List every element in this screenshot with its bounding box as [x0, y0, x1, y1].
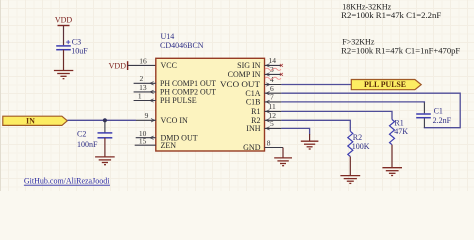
pin 9 stub: [136, 119, 156, 122]
svg-text:6: 6: [270, 84, 274, 93]
github link: [24, 177, 110, 186]
svg-text:PH PULSE: PH PULSE: [160, 96, 197, 105]
svg-text:VCO IN: VCO IN: [161, 116, 189, 125]
pin numbers left: [138, 57, 149, 146]
pin 6 stub: [265, 92, 282, 95]
pin 10 stub: [136, 136, 156, 139]
resistor R2: [348, 131, 370, 156]
svg-text:R2: R2: [353, 133, 362, 142]
wire pin5 INH to ground: [281, 128, 309, 134]
pin 5 stub: [265, 127, 282, 130]
port PLL PULSE: [351, 80, 421, 90]
svg-text:2.2nF: 2.2nF: [433, 116, 452, 125]
svg-text:VDD: VDD: [109, 62, 127, 71]
svg-text:C1: C1: [434, 107, 443, 116]
ground (INH pin 5): [301, 141, 319, 149]
pin 8 stub GND: [265, 147, 284, 149]
svg-text:ZEN: ZEN: [161, 141, 177, 150]
pin 12 stub: [265, 119, 282, 122]
junction node (IN / C2): [103, 118, 107, 122]
svg-text:CD4046BCN: CD4046BCN: [160, 41, 204, 50]
capacitor C3: [56, 37, 88, 55]
IC U14 CD4046BCN: [156, 32, 265, 151]
svg-text:VCO OUT: VCO OUT: [220, 80, 260, 89]
port IN: [3, 116, 68, 125]
wire R1 to ground: [391, 145, 393, 168]
svg-text:C1B: C1B: [246, 98, 261, 107]
pin 1 stub: [134, 99, 156, 102]
svg-text:100nF: 100nF: [77, 140, 98, 149]
pin 3 stub (no connect): [265, 73, 283, 76]
svg-text:1: 1: [138, 91, 142, 100]
pin 14 error squiggle: [265, 68, 281, 70]
capacitor C2: [77, 130, 112, 149]
svg-text:COMP IN: COMP IN: [228, 70, 261, 79]
ground (below R2): [340, 176, 360, 184]
pin 3 error squiggle: [265, 77, 281, 79]
wire junction to C2: [104, 120, 106, 132]
svg-text:C2: C2: [77, 130, 86, 139]
svg-text:GitHub.com/AliRezaJoodi: GitHub.com/AliRezaJoodi: [24, 177, 110, 186]
wire pin7 to C1 top: [281, 102, 424, 103]
pin numbers right: [267, 56, 276, 148]
svg-text:7: 7: [270, 93, 274, 102]
svg-text:IN: IN: [26, 116, 35, 125]
IC pin names right column: [220, 61, 261, 152]
wire pin12 to R2: [281, 120, 350, 131]
pin 14 stub (no connect): [265, 64, 283, 67]
svg-text:8: 8: [267, 139, 271, 148]
ground (below C2): [95, 157, 115, 165]
svg-text:U14: U14: [161, 32, 175, 41]
IC pin names left column: [160, 61, 216, 150]
power VDD (top-left): [55, 16, 73, 46]
wire IN port to pin9: [67, 119, 136, 121]
svg-text:C3: C3: [72, 37, 81, 46]
wire C2 to ground: [104, 138, 106, 157]
note frequency range 2: [341, 38, 461, 56]
svg-text:F>32KHz: F>32KHz: [342, 38, 375, 47]
svg-text:GND: GND: [243, 143, 261, 152]
wire pin11 to R1: [281, 111, 392, 119]
svg-text:3: 3: [270, 65, 274, 74]
svg-text:R2=100k R1=47k C1=1nF+470pF: R2=100k R1=47k C1=1nF+470pF: [341, 47, 461, 56]
svg-text:9: 9: [145, 111, 149, 120]
pin 4 stub: [265, 83, 282, 86]
pin 15 stub: [135, 144, 156, 146]
ground (below R1): [382, 168, 402, 176]
svg-text:10uF: 10uF: [71, 46, 88, 55]
svg-text:16: 16: [139, 57, 147, 66]
wire R2 to ground: [349, 157, 351, 176]
svg-text:47K: 47K: [394, 127, 408, 136]
svg-text:VDD: VDD: [55, 16, 73, 25]
wire pin4 to port: [281, 84, 351, 86]
pin 11 stub: [265, 110, 282, 113]
pin 13 stub: [134, 90, 156, 93]
capacitor C1: [416, 107, 451, 126]
svg-text:VCC: VCC: [161, 61, 177, 70]
ground (below C3): [54, 71, 73, 79]
pin 2 stub: [134, 82, 156, 85]
wire VDD to pin16: [128, 64, 156, 66]
svg-text:PLL PULSE: PLL PULSE: [364, 80, 406, 89]
svg-text:R1: R1: [251, 107, 260, 116]
power VDD (at pin 16): [109, 61, 128, 70]
svg-text:SIG IN: SIG IN: [237, 61, 261, 70]
wire C3 to ground: [63, 50, 65, 71]
svg-text:100K: 100K: [352, 142, 370, 151]
wire pin6 to C1 bottom: [281, 93, 460, 128]
resistor R1: [390, 119, 409, 145]
svg-text:INH: INH: [246, 124, 260, 133]
svg-text:14: 14: [269, 56, 277, 65]
svg-text:C1A: C1A: [245, 89, 260, 98]
pin 7 stub: [265, 100, 282, 103]
note frequency range 1: [341, 3, 442, 20]
svg-text:R2=100k R1=47k C1=2.2nF: R2=100k R1=47k C1=2.2nF: [341, 11, 442, 20]
ground (pin 8): [274, 158, 292, 166]
